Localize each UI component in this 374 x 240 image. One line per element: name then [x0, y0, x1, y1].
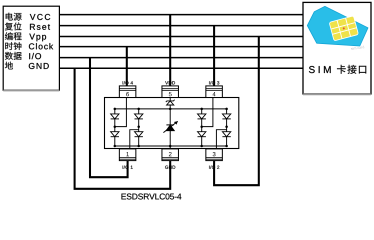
node junction top rail — [169, 108, 172, 111]
pin label I/O 1 — [123, 165, 133, 168]
diode D7 upper — [222, 114, 230, 119]
diode D8 lower — [222, 132, 230, 137]
wire top rail — [115, 108, 227, 110]
wire diode column D — [226, 109, 228, 146]
label row I/O — [5, 52, 41, 60]
node junction bottom rail — [137, 145, 140, 148]
wire VCC to pin 5 — [169, 15, 171, 86]
wire GND to pin 2 — [75, 68, 171, 189]
node junction top rail — [200, 108, 203, 111]
pin label I/O 3 — [209, 81, 219, 84]
wire diode column A — [114, 109, 116, 146]
node junction mid — [200, 126, 203, 129]
wire pin1 to column B mid — [130, 130, 139, 149]
wire Clock bus — [59, 46, 303, 48]
label SIM卡接口 — [309, 65, 366, 74]
SIM card icon — [307, 6, 368, 51]
pin label I/O 4 — [123, 81, 133, 84]
diode D6 lower — [198, 132, 206, 137]
TVS zener D10 center — [163, 121, 178, 133]
wire pin4 to column C mid — [202, 98, 213, 127]
wire pin6 to column A mid — [115, 98, 127, 127]
wire Vpp to pin 3 — [214, 37, 259, 186]
pin 1 — [119, 149, 136, 161]
wire GND bus — [59, 67, 303, 69]
wire Clock to pin 6 — [126, 47, 128, 86]
pin 4 — [206, 86, 223, 98]
wire I/O to pin 1 — [90, 58, 128, 178]
diode D4 lower — [135, 132, 143, 137]
label row VCC — [6, 13, 51, 21]
wire pin3 to column D mid — [216, 130, 226, 149]
label row Vpp — [5, 32, 46, 41]
value label ESDSRVLC05-4 — [121, 193, 181, 199]
IC U1 ESDSRVLC05-4 body — [105, 98, 239, 149]
node junction bottom rail — [200, 145, 203, 148]
wire bottom rail — [115, 145, 227, 147]
node junction top rail — [137, 108, 140, 111]
node junction bottom rail — [225, 145, 228, 148]
wire Rset bus — [59, 25, 303, 27]
node junction mid — [137, 126, 140, 129]
node junction top rail — [225, 108, 228, 111]
node junction bottom rail — [169, 145, 172, 148]
label row Clock — [5, 42, 53, 50]
label row Rset — [5, 22, 50, 30]
connector box (host interface) — [3, 6, 59, 90]
node junction mid — [225, 126, 228, 129]
wire diode column B — [138, 109, 140, 146]
pin 6 — [119, 86, 136, 98]
node junction mid — [114, 126, 117, 129]
wire Vpp bus — [59, 36, 303, 38]
diode D1 upper — [111, 114, 119, 119]
pin 2 — [162, 149, 179, 161]
pin label VDD — [165, 81, 175, 84]
wire diode column C — [201, 109, 203, 146]
diode D2 lower — [111, 132, 119, 137]
node junction bottom rail — [114, 145, 117, 148]
label row GND — [5, 62, 49, 70]
pin label I/O 2 — [209, 165, 219, 168]
SIM connector box — [303, 2, 371, 94]
wire I/O bus — [59, 57, 303, 59]
wire center column pin5-pin2 — [169, 98, 171, 150]
pin 3 — [206, 149, 223, 161]
diode D3 upper — [135, 114, 143, 119]
pin 5 — [162, 86, 179, 98]
pin label GND — [165, 166, 175, 169]
zener D9 under pin5 — [166, 100, 175, 105]
wire Rset to pin 4 — [213, 26, 215, 86]
diode D5 upper — [198, 114, 206, 119]
wire VCC bus — [59, 14, 303, 16]
node junction top rail — [114, 108, 117, 111]
